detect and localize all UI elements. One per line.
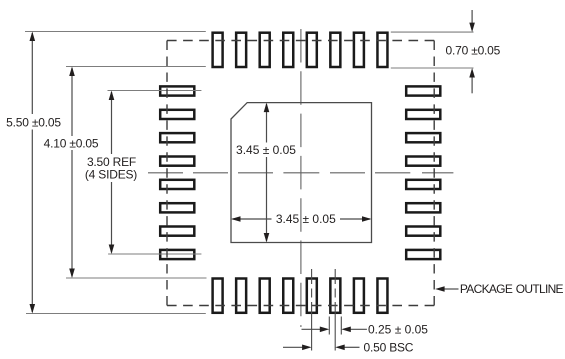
svg-text:3.45 ± 0.05: 3.45 ± 0.05: [276, 212, 336, 226]
svg-text:0.25 ± 0.05: 0.25 ± 0.05: [368, 323, 428, 337]
svg-text:4.10 ±0.05: 4.10 ±0.05: [44, 136, 99, 150]
svg-text:PACKAGE OUTLINE: PACKAGE OUTLINE: [460, 282, 564, 296]
svg-text:(4 SIDES): (4 SIDES): [85, 167, 137, 181]
svg-text:3.45 ± 0.05: 3.45 ± 0.05: [236, 143, 296, 157]
svg-text:5.50 ±0.05: 5.50 ±0.05: [6, 115, 61, 129]
svg-text:0.50 BSC: 0.50 BSC: [364, 341, 414, 355]
svg-text:0.70 ±0.05: 0.70 ±0.05: [446, 44, 501, 58]
